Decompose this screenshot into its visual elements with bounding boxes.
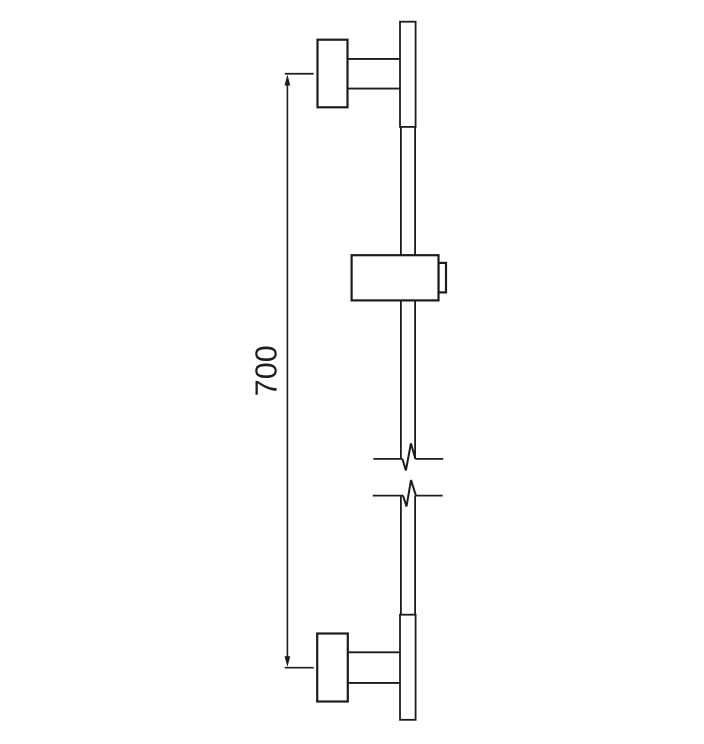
rail top end cap (400, 22, 416, 127)
rail lower tube wire (401, 496, 415, 615)
dimension arrowhead bottom (285, 656, 291, 667)
upper break line (373, 458, 443, 460)
top bracket arm wire (348, 59, 402, 89)
bottom bracket arm wire (348, 652, 401, 683)
rail upper tube wire (401, 127, 415, 459)
dimension arrowhead top (285, 75, 291, 86)
svg-text:700: 700 (250, 345, 284, 396)
top bracket (318, 40, 348, 108)
dimension extension line bottom (285, 667, 314, 669)
bottom bracket (317, 634, 348, 702)
slider knob (439, 263, 447, 293)
slider body (352, 255, 439, 300)
rail bottom end cap (400, 615, 416, 720)
upper break zigzag (402, 443, 415, 470)
lower break line (373, 495, 443, 497)
dimension line 700 (286, 78, 288, 663)
lower break zigzag (403, 480, 416, 506)
dimension extension line top (285, 73, 314, 75)
